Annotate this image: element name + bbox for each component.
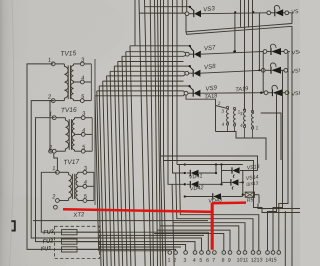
margin bracket mark bbox=[11, 221, 15, 230]
wire transformer secondary bus bbox=[94, 59, 96, 205]
svg-text:TV17: TV17 bbox=[63, 159, 79, 167]
label VD41 bbox=[189, 173, 203, 180]
svg-text:VS4: VS4 bbox=[292, 49, 300, 56]
svg-text:FU1: FU1 bbox=[41, 246, 52, 253]
wire feeder to VS3 rung bbox=[181, 0, 183, 13]
wire feeder to VD41 node bbox=[173, 0, 185, 173]
fuse FU1 bbox=[41, 246, 100, 253]
wire crossing rail b bbox=[99, 245, 186, 251]
wire series link TV15 pin2 to TV16 bbox=[50, 101, 54, 152]
wire VS9 row bbox=[200, 92, 264, 95]
wire VD42 node bbox=[221, 165, 223, 185]
terminal 15 of XT row bbox=[270, 251, 277, 264]
thyristor VS14 bbox=[222, 179, 243, 185]
svg-text:1: 1 bbox=[49, 111, 53, 117]
svg-text:R5: R5 bbox=[247, 197, 254, 204]
terminal circle XT2 under TV17 bbox=[54, 205, 58, 209]
junction dot top rail b bbox=[220, 163, 222, 165]
terminal 8 of XT row bbox=[221, 251, 225, 264]
terminal 4 of XT row bbox=[192, 251, 196, 264]
terminal 12 of XT row bbox=[250, 251, 257, 264]
wire bridge drop A bbox=[172, 184, 245, 266]
label TA18 bbox=[204, 93, 218, 100]
wire fan to VS8 bbox=[184, 71, 186, 76]
wire staircase 10 bbox=[126, 52, 184, 266]
wire far right drop bbox=[284, 211, 286, 266]
junction dot at VS5 row bbox=[258, 69, 260, 71]
svg-text:XT2: XT2 bbox=[72, 212, 85, 219]
wire top feeder d bbox=[252, 0, 254, 112]
thyristor VS6 bbox=[264, 85, 302, 97]
wire fuse FU1 rail to terminal 2 bbox=[77, 249, 176, 250]
svg-text:4: 4 bbox=[84, 180, 88, 186]
dashed enclosure fuse box bbox=[55, 226, 100, 258]
wire series link TV16 pin2 to TV17 pin1 bbox=[54, 153, 58, 171]
junction dot R5 node bbox=[242, 194, 244, 196]
wire staircase 5 bbox=[107, 76, 184, 266]
wire feeder to inner frame bbox=[164, 0, 301, 213]
wire feeder to VS3 anode bbox=[186, 0, 188, 12]
wire mid right link a bbox=[258, 13, 260, 71]
wire TA18 coil drops bbox=[228, 125, 235, 131]
label XT2 bbox=[72, 212, 85, 219]
transformer TV16 bbox=[48, 107, 92, 153]
red annotation main line bbox=[63, 209, 213, 212]
thyristor VS2 (row1 right) bbox=[267, 5, 299, 16]
thyristor VS8 bbox=[185, 63, 217, 77]
label TA18 pin 1 bbox=[237, 109, 240, 114]
terminal 6 of XT row bbox=[206, 251, 210, 264]
wire staircase 7 bbox=[114, 66, 190, 266]
svg-text:FU2: FU2 bbox=[42, 238, 54, 245]
wire feeder to bridge top rail bbox=[176, 0, 178, 165]
current transformer TA18 coils bbox=[226, 106, 235, 126]
svg-text:4: 4 bbox=[82, 128, 86, 134]
terminal 14 of XT row bbox=[265, 251, 272, 264]
wire feeder long b bbox=[155, 0, 231, 266]
terminal 5 of XT row bbox=[199, 251, 203, 264]
wire row1-row2 link bbox=[234, 12, 236, 51]
wire staircase 4 bbox=[103, 81, 184, 266]
thyristor VS3 bbox=[185, 5, 216, 17]
current transformer TA19 coils bbox=[243, 109, 253, 129]
junction dot slant bbox=[233, 51, 235, 53]
resistor R5 bbox=[243, 192, 259, 197]
junction dot row1 b bbox=[252, 11, 254, 13]
wire rail above fuse box bbox=[33, 220, 208, 222]
wire feeder to module frame bbox=[161, 0, 258, 171]
junction dot top rail a bbox=[215, 163, 217, 165]
svg-text:FU3: FU3 bbox=[43, 229, 55, 236]
terminal x of XT row bbox=[277, 251, 281, 255]
wire right drop to terminal 15 bbox=[273, 71, 283, 251]
svg-text:TV16: TV16 bbox=[61, 107, 77, 115]
terminal 9 of XT row bbox=[227, 251, 231, 264]
diode VD42 bbox=[187, 181, 222, 188]
red annotation top branch bbox=[212, 201, 246, 204]
label ShKh13 bbox=[246, 180, 259, 186]
label R5 bbox=[247, 197, 254, 204]
transformer TV15 bbox=[47, 50, 91, 102]
wire slant pair bbox=[186, 15, 292, 35]
wire mid right link b bbox=[262, 52, 264, 93]
terminal 3 of XT row bbox=[183, 251, 187, 264]
wire TA19 coil drops bbox=[245, 128, 253, 138]
wire fan to VS9 bbox=[184, 91, 185, 96]
label TA19 pin 4 bbox=[240, 123, 243, 128]
wire staircase 11 bbox=[130, 46, 190, 266]
wire bridge top rail bbox=[177, 164, 243, 166]
svg-text:VS3: VS3 bbox=[203, 5, 216, 13]
svg-text:TV15: TV15 bbox=[60, 50, 76, 58]
wire TA18 pin2 diagonal bbox=[216, 106, 227, 109]
label TA18 pin 3 bbox=[221, 109, 224, 114]
wire VS8 row bbox=[200, 70, 261, 73]
svg-text:1: 1 bbox=[48, 58, 52, 64]
wire crossing rail c bbox=[99, 246, 181, 248]
label VD43 bbox=[208, 197, 223, 205]
wire staircase 9 bbox=[122, 56, 184, 266]
wire VS7 row bbox=[201, 52, 263, 55]
wire feeder inner comb tail bbox=[164, 161, 166, 266]
terminal 2 of XT row bbox=[172, 251, 177, 264]
wire bridge drop C bbox=[179, 165, 258, 251]
wire staircase 6 bbox=[110, 71, 183, 266]
wire fan to VS3 bbox=[184, 12, 186, 14]
wire R5 down bbox=[258, 195, 260, 204]
wire VS13-14 right node bbox=[242, 171, 244, 195]
wire feeder stub bbox=[134, 0, 136, 46]
svg-text:15: 15 bbox=[270, 257, 277, 264]
margin line bbox=[10, 0, 14, 266]
wire fan to VS7 bbox=[184, 52, 186, 57]
svg-text:VS9: VS9 bbox=[205, 84, 218, 92]
junction dot VD42 right bbox=[220, 183, 222, 185]
wire staircase 8 bbox=[118, 62, 184, 266]
svg-text:13: 13 bbox=[256, 257, 263, 264]
terminal 11 of XT row bbox=[242, 251, 248, 264]
transformer TV17 bbox=[51, 159, 94, 203]
junction dot VS14 right bbox=[242, 181, 244, 183]
wire rail right a bbox=[258, 204, 300, 209]
svg-text:1: 1 bbox=[52, 166, 56, 172]
wire top feeder c bbox=[248, 0, 250, 27]
terminal 1 of XT row bbox=[167, 251, 171, 264]
wire feeder long c bbox=[158, 0, 239, 266]
thyristor VS5 bbox=[261, 63, 303, 75]
wire feeder long a bbox=[150, 0, 224, 266]
wire staircase 3 bbox=[99, 86, 189, 266]
label TA18 pin 4 bbox=[221, 122, 224, 127]
wire right drop to terminal 16 bbox=[279, 52, 288, 251]
wire top feeder b bbox=[244, 0, 246, 110]
wire TV15 pin2 left bus bbox=[31, 101, 201, 251]
wire VS4 right bbox=[288, 51, 290, 53]
wire TV16 pin1 left bus to FU2 bbox=[36, 118, 62, 242]
wire bridge drop B bbox=[176, 173, 253, 251]
red annotation vertical bbox=[211, 203, 214, 250]
label VS13 bbox=[247, 164, 260, 172]
wire TV15 pin1 left bus to FU1 bbox=[27, 64, 61, 250]
diode VD41 bbox=[187, 170, 217, 177]
terminal 7 of XT row bbox=[212, 251, 217, 264]
thyristor VS4 bbox=[263, 44, 302, 56]
wire top feeder a bbox=[240, 0, 242, 27]
terminal 10 of XT row bbox=[236, 251, 243, 264]
wire row1 link bbox=[201, 12, 267, 15]
svg-text:VS8: VS8 bbox=[204, 63, 217, 71]
junction dot row1 a bbox=[234, 11, 236, 13]
wire VD41 node bbox=[215, 165, 217, 174]
wire right of TA19 down bbox=[261, 113, 281, 160]
junction dot VS6 row bbox=[260, 92, 262, 94]
gate curl VS14 bbox=[232, 186, 233, 189]
svg-text:4: 4 bbox=[81, 76, 85, 82]
wire TA19 to module bbox=[253, 138, 267, 160]
label VS14 bbox=[246, 174, 259, 182]
label TA19 pin 1 bbox=[255, 125, 258, 130]
node column dots bbox=[184, 163, 186, 197]
wire VS9 gate bus down to TA18 bbox=[186, 95, 216, 132]
fuse FU2 bbox=[42, 238, 99, 245]
fuse FU3 bbox=[43, 229, 99, 236]
wire TA18 bottom bbox=[216, 132, 253, 139]
label TA19 pin 3 bbox=[240, 111, 243, 116]
thyristor VS13 bbox=[222, 167, 258, 173]
wire staircase 1 bbox=[95, 96, 184, 251]
wire staircase 2 bbox=[97, 91, 184, 266]
label VD42 bbox=[190, 185, 204, 192]
junction dot row2 link bbox=[234, 50, 236, 52]
junction dot VD41 right bbox=[215, 172, 217, 174]
wire TV17 pin1 left bus to FU3 bbox=[41, 172, 61, 232]
wire right drop to terminal 14 bbox=[268, 93, 277, 251]
svg-text:11: 11 bbox=[242, 257, 248, 264]
label TA19 bbox=[235, 86, 249, 93]
terminal 13 of XT row bbox=[256, 251, 263, 264]
wire staircase 12 bbox=[139, 0, 185, 266]
diode VD43 bbox=[185, 193, 243, 200]
wire feeder to VD42 node bbox=[168, 0, 184, 184]
wire fuse FU3 rail to terminal 6 bbox=[77, 232, 208, 251]
wire right edge drop bbox=[291, 26, 293, 266]
wire staircase 13 bbox=[145, 0, 190, 266]
gate curl VS13 bbox=[233, 175, 234, 178]
svg-text:VS7: VS7 bbox=[204, 44, 217, 52]
thyristor VS7 bbox=[185, 44, 216, 58]
wire fuse FU2 rail to terminal 4 bbox=[77, 242, 195, 251]
wire row1 to right edge bbox=[289, 13, 292, 24]
wire crossing rail a bbox=[99, 234, 204, 236]
wire feeder frame comb tail bbox=[161, 156, 163, 266]
thyristor VS9 bbox=[184, 84, 218, 96]
label TA18 pin 2 bbox=[217, 101, 221, 106]
